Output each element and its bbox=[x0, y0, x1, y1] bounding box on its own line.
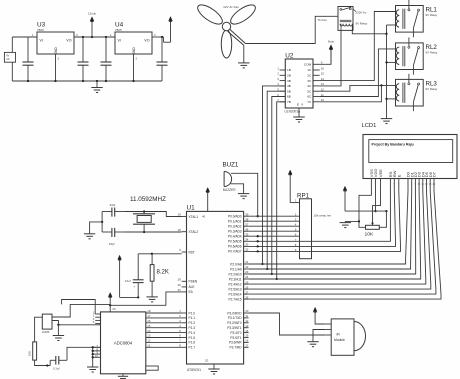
svg-text:15: 15 bbox=[147, 324, 151, 328]
ground R1 bbox=[146, 297, 157, 302]
wire U2 6B input from P2.2 bbox=[271, 97, 286, 276]
svg-text:ULN2003A: ULN2003A bbox=[285, 110, 301, 114]
svg-text:10k array res: 10k array res bbox=[314, 214, 332, 218]
svg-text:P3.2/INT0: P3.2/INT0 bbox=[227, 321, 242, 325]
svg-text:P2.3/A11: P2.3/A11 bbox=[229, 277, 242, 281]
svg-text:BUZ1: BUZ1 bbox=[223, 162, 239, 169]
svg-text:16: 16 bbox=[321, 66, 325, 70]
wire P3.0 RXD to IR module bbox=[249, 313, 326, 335]
relay RL1 9V relay bbox=[396, 0, 438, 37]
wire U3 output rail bbox=[74, 36, 115, 38]
wire fan terminal to ground bbox=[243, 45, 245, 63]
wire RL2 coil+ from U2 6C bbox=[320, 49, 396, 97]
wire IR module ground leg bbox=[313, 330, 325, 342]
svg-text:P3.0/RXD: P3.0/RXD bbox=[227, 311, 242, 315]
wire ADC ground bus bbox=[92, 347, 94, 367]
svg-text:LM35: LM35 bbox=[42, 330, 50, 334]
node crystal frequency label bbox=[130, 196, 166, 203]
svg-text:P0.4/AD4: P0.4/AD4 bbox=[228, 235, 242, 239]
svg-text:GND: GND bbox=[54, 47, 58, 55]
svg-text:18: 18 bbox=[147, 309, 151, 313]
svg-text:E: E bbox=[396, 174, 401, 177]
svg-text:14: 14 bbox=[147, 329, 151, 333]
resistor pack RP1 10k array bbox=[290, 193, 331, 259]
svg-text:LCD1: LCD1 bbox=[362, 123, 377, 129]
buzzer BUZ1 bbox=[223, 162, 239, 192]
svg-text:13: 13 bbox=[147, 334, 151, 338]
wire RL3 coil+ from U2 5C bbox=[320, 85, 396, 91]
ground relay bus bbox=[381, 119, 392, 124]
svg-text:12: 12 bbox=[245, 319, 249, 323]
svg-text:E: E bbox=[297, 103, 299, 107]
svg-text:12V dc Fan: 12V dc Fan bbox=[223, 5, 239, 9]
svg-text:10: 10 bbox=[245, 309, 249, 313]
driver U2 ULN2003A bbox=[277, 53, 324, 114]
wire U1 GND pin 20 bbox=[213, 364, 215, 369]
svg-text:230V Ac: 230V Ac bbox=[356, 11, 367, 15]
svg-text:40: 40 bbox=[202, 215, 206, 219]
svg-text:VEE: VEE bbox=[378, 169, 383, 177]
wire reset supply leg bbox=[120, 296, 140, 298]
svg-text:35: 35 bbox=[245, 232, 249, 236]
svg-text:24: 24 bbox=[245, 275, 249, 279]
wire crystal left rail bbox=[101, 212, 103, 233]
svg-text:4B: 4B bbox=[287, 84, 291, 88]
ground crystal bbox=[84, 222, 102, 239]
svg-text:GND: GND bbox=[132, 47, 136, 55]
svg-text:P1.1: P1.1 bbox=[189, 316, 196, 320]
svg-text:15: 15 bbox=[321, 72, 325, 76]
resistor R2 ADC clock bbox=[146, 366, 158, 370]
svg-text:XTAL1: XTAL1 bbox=[189, 215, 199, 219]
svg-text:XTAL2: XTAL2 bbox=[189, 230, 199, 234]
capacitor C6 33pf bbox=[102, 228, 125, 246]
svg-text:RP1: RP1 bbox=[297, 193, 310, 200]
svg-text:11: 11 bbox=[321, 93, 324, 97]
wire BUZ1 to ground bbox=[231, 184, 244, 194]
wire relay ground bus bbox=[385, 25, 387, 119]
wire P0 bus to RP1 bbox=[249, 216, 300, 252]
svg-text:9V Relay: 9V Relay bbox=[426, 50, 438, 54]
wire LCD VDD to +5V bbox=[374, 186, 376, 213]
wire ADC control steps bbox=[62, 300, 96, 315]
svg-text:U2: U2 bbox=[285, 53, 294, 60]
svg-text:2B: 2B bbox=[287, 74, 291, 78]
svg-text:VO: VO bbox=[144, 39, 149, 43]
svg-text:P1.2: P1.2 bbox=[189, 321, 196, 325]
svg-text:ADC0804: ADC0804 bbox=[114, 341, 133, 346]
wire U2 5B input from P2.1 bbox=[266, 91, 285, 270]
svg-text:P2.7/A15: P2.7/A15 bbox=[228, 297, 241, 301]
regulator U4 7805 bbox=[110, 22, 156, 61]
svg-text:P1.3: P1.3 bbox=[189, 326, 196, 330]
capacitor C2 bbox=[78, 37, 89, 81]
wire P0.5 to LCD RS bbox=[300, 186, 391, 242]
wire P2.1 to LCD D1 bbox=[249, 186, 412, 270]
svg-text:29: 29 bbox=[178, 278, 182, 282]
svg-text:P0.5/AD5: P0.5/AD5 bbox=[228, 240, 242, 244]
svg-text:10K: 10K bbox=[365, 231, 374, 237]
svg-text:ALE: ALE bbox=[189, 285, 195, 289]
svg-text:P3.7/RD: P3.7/RD bbox=[230, 346, 243, 350]
wire P2.6 to LCD D6 bbox=[249, 186, 436, 295]
svg-text:34: 34 bbox=[245, 238, 249, 242]
svg-text:9vdc: 9vdc bbox=[328, 40, 335, 44]
resistor R3 bbox=[28, 342, 37, 360]
svg-text:P0.3/AD3: P0.3/AD3 bbox=[228, 230, 242, 234]
svg-text:26: 26 bbox=[245, 285, 249, 289]
svg-text:P2.0/A8: P2.0/A8 bbox=[230, 262, 242, 266]
ground LM35 bbox=[53, 336, 64, 341]
module IR receiver bbox=[325, 319, 365, 355]
wire pot right terminal bbox=[379, 211, 386, 227]
svg-text:19: 19 bbox=[178, 213, 182, 217]
connector J1 9V AC input bbox=[4, 52, 15, 62]
wire RL4 coil to U2 4C bbox=[320, 30, 341, 86]
svg-text:P3.5/T1: P3.5/T1 bbox=[230, 336, 241, 340]
svg-text:Module: Module bbox=[334, 338, 345, 342]
svg-text:37: 37 bbox=[245, 222, 249, 226]
svg-text:P0.6/AD6: P0.6/AD6 bbox=[228, 245, 242, 249]
svg-text:VI: VI bbox=[118, 39, 121, 43]
wire ADC GND pin bbox=[122, 374, 124, 377]
svg-text:18: 18 bbox=[178, 228, 182, 232]
ground BUZ1 bbox=[238, 194, 249, 199]
sensor LM35 bbox=[42, 314, 52, 334]
svg-text:23: 23 bbox=[245, 270, 249, 274]
svg-text:D7: D7 bbox=[432, 171, 437, 177]
svg-text:VO: VO bbox=[66, 39, 71, 43]
node +5V arrow ADC VCC bbox=[108, 293, 116, 312]
capacitor C4 bbox=[157, 37, 168, 81]
svg-text:14: 14 bbox=[321, 77, 325, 81]
svg-text:U1: U1 bbox=[187, 205, 196, 212]
wire C8 to ADC bbox=[67, 346, 101, 360]
wire P0.6 to LCD RW bbox=[300, 186, 396, 247]
svg-text:28: 28 bbox=[245, 295, 249, 299]
wire U2 7C to RL3 coil line bbox=[320, 84, 383, 102]
node To Fan label bbox=[318, 18, 328, 22]
svg-text:9V Relay: 9V Relay bbox=[356, 22, 368, 26]
svg-text:7B: 7B bbox=[287, 100, 291, 104]
svg-text:33pf: 33pf bbox=[109, 242, 115, 246]
wire EA to +5V node bbox=[109, 292, 182, 307]
svg-text:P1.0: P1.0 bbox=[189, 311, 196, 315]
wire P2.0 to LCD D0 bbox=[249, 186, 408, 265]
relay RL2 9V relay bbox=[396, 37, 438, 74]
wire LM35 to resistor R3 bbox=[35, 317, 43, 342]
regulator U3 7805 bbox=[32, 22, 78, 61]
node RL4 9V Relay label bbox=[356, 22, 368, 26]
capacitor C5 33pf bbox=[102, 203, 125, 217]
svg-text:P2.4/A12: P2.4/A12 bbox=[228, 282, 241, 286]
ground ADC bottom bbox=[118, 376, 128, 379]
crystal X1 bbox=[133, 212, 155, 233]
svg-text:AT89C51: AT89C51 bbox=[187, 368, 201, 372]
svg-text:P1.7: P1.7 bbox=[189, 346, 196, 350]
svg-text:1B: 1B bbox=[287, 68, 291, 72]
wire RST net bbox=[138, 253, 181, 255]
svg-text:13: 13 bbox=[245, 324, 249, 328]
svg-text:P2.1/A9: P2.1/A9 bbox=[230, 267, 242, 271]
svg-text:12vdc: 12vdc bbox=[88, 11, 97, 15]
svg-text:17: 17 bbox=[245, 344, 249, 348]
svg-text:P0.0/AD0: P0.0/AD0 bbox=[228, 215, 242, 219]
relay RL4 fan relay bbox=[338, 7, 353, 31]
wire XTAL2 net bbox=[125, 231, 182, 233]
wire BUZ1 to P0.0 bbox=[231, 173, 259, 217]
svg-text:10K: 10K bbox=[28, 351, 32, 356]
wire P2.7 to LCD D7 bbox=[249, 186, 441, 300]
wire R3 bottom node bbox=[35, 360, 51, 367]
wire U2 4B input from P2.0 bbox=[261, 86, 285, 265]
wire RL1 coil+ from U2 3C bbox=[320, 12, 396, 81]
node +5V supply arrow bbox=[169, 17, 173, 43]
svg-text:33pf: 33pf bbox=[110, 203, 116, 207]
wire P2.2 to LCD D2 bbox=[249, 186, 416, 275]
node +12V supply arrow bbox=[88, 11, 97, 37]
wire fan terminal to relay bbox=[228, 16, 338, 45]
svg-text:12: 12 bbox=[321, 88, 325, 92]
ground fan bbox=[238, 63, 249, 68]
wire RP1 pin1 to +5V bbox=[289, 176, 291, 203]
svg-text:8.2K: 8.2K bbox=[157, 270, 169, 276]
wire XTAL1 net bbox=[125, 210, 182, 216]
svg-text:16: 16 bbox=[147, 319, 151, 323]
wire LM35 VCC leg bbox=[52, 304, 110, 317]
svg-text:P2.6/A14: P2.6/A14 bbox=[228, 292, 241, 296]
svg-text:BUZZER: BUZZER bbox=[223, 188, 236, 192]
svg-text:P0.1/AD1: P0.1/AD1 bbox=[228, 220, 242, 224]
svg-text:20: 20 bbox=[205, 359, 209, 363]
ground IR module bbox=[307, 342, 318, 347]
wire RL3 coil- to ground bus bbox=[387, 98, 396, 100]
mcu U1 AT89C51 bbox=[178, 205, 249, 372]
wire P2.5 to LCD D5 bbox=[249, 186, 431, 290]
svg-text:6B: 6B bbox=[287, 95, 291, 99]
svg-text:P0.7/AD7: P0.7/AD7 bbox=[228, 250, 242, 254]
svg-text:11: 11 bbox=[245, 314, 248, 318]
wire RL4 coil to ground bus bbox=[352, 30, 386, 33]
svg-text:20: 20 bbox=[112, 307, 116, 311]
svg-text:P3.6/WR: P3.6/WR bbox=[229, 341, 242, 345]
svg-text:11: 11 bbox=[147, 344, 150, 348]
ground pot bbox=[340, 221, 351, 227]
svg-text:27: 27 bbox=[245, 290, 249, 294]
svg-text:PSEN: PSEN bbox=[189, 280, 198, 284]
svg-text:10uf: 10uf bbox=[125, 279, 131, 283]
svg-text:P0.2/AD2: P0.2/AD2 bbox=[228, 225, 242, 229]
wire +5V rail to pot bbox=[345, 210, 388, 212]
wire IR module VCC bbox=[315, 312, 325, 324]
svg-text:3B: 3B bbox=[287, 79, 291, 83]
node +5V arrow reset bbox=[118, 255, 122, 297]
svg-text:P1.6: P1.6 bbox=[189, 341, 196, 345]
svg-text:P1.5: P1.5 bbox=[189, 336, 196, 340]
ground PSU bbox=[91, 81, 102, 93]
resistor R1 8.2K bbox=[150, 254, 169, 297]
svg-text:P2.5/A13: P2.5/A13 bbox=[228, 287, 241, 291]
node LCD1 label bbox=[362, 123, 377, 129]
capacitor C3 bbox=[101, 37, 112, 81]
motor FAN1 12V dc fan bbox=[195, 1, 258, 58]
svg-text:17: 17 bbox=[147, 314, 151, 318]
svg-text:36: 36 bbox=[245, 227, 249, 231]
wire LM35 ground leg bbox=[57, 325, 59, 336]
svg-text:Project By Bandaru Raju: Project By Bandaru Raju bbox=[372, 143, 414, 147]
svg-text:13: 13 bbox=[321, 82, 325, 86]
svg-text:AC: AC bbox=[6, 58, 10, 61]
wire RL1 coil- to ground bus bbox=[387, 24, 396, 26]
node 230V Ac label bbox=[353, 9, 367, 15]
svg-text:22: 22 bbox=[245, 265, 249, 269]
wire U2 emitter pin to ground bbox=[298, 108, 300, 117]
wire P0.7 to LCD E bbox=[300, 186, 401, 252]
wire U4 output to +5V arrow bbox=[152, 36, 171, 42]
capacitor C7 10uf bbox=[125, 254, 144, 298]
svg-text:14: 14 bbox=[245, 329, 249, 333]
wire LM35 output to ADC VIN+ bbox=[52, 321, 101, 326]
adc U5 ADC0804 bbox=[93, 311, 146, 374]
svg-text:P1.4: P1.4 bbox=[189, 331, 196, 335]
wire pot left terminal bbox=[345, 220, 365, 227]
svg-text:P3.3/INT1: P3.3/INT1 bbox=[227, 326, 242, 330]
potentiometer RV1 10K bbox=[365, 225, 380, 237]
svg-text:P3.1/TXD: P3.1/TXD bbox=[228, 316, 243, 320]
svg-text:11.0592MHZ: 11.0592MHZ bbox=[130, 196, 166, 203]
svg-text:25: 25 bbox=[245, 280, 249, 284]
lcd LCD1 16x2 display bbox=[363, 135, 457, 186]
svg-text:15: 15 bbox=[245, 334, 249, 338]
relay RL3 9V relay bbox=[396, 74, 438, 111]
wire P2.4 to LCD D4 bbox=[249, 186, 426, 285]
ground U1 bbox=[208, 369, 219, 374]
wire RL2 coil- to ground bus bbox=[387, 61, 396, 63]
node +5V arrow IR bbox=[313, 307, 317, 312]
wire LCD VEE to pot wiper bbox=[373, 186, 381, 226]
capacitor C8 bbox=[50, 356, 67, 370]
ground U2 bbox=[293, 117, 304, 122]
svg-text:38: 38 bbox=[245, 217, 249, 221]
svg-text:To Fan: To Fan bbox=[318, 18, 328, 22]
svg-text:0.1uf: 0.1uf bbox=[53, 366, 60, 370]
wire 9V input rail bbox=[12, 37, 37, 81]
svg-text:39: 39 bbox=[245, 212, 249, 216]
svg-text:P2.2/A10: P2.2/A10 bbox=[228, 272, 241, 276]
wire U4 ground pin bbox=[133, 54, 135, 81]
svg-text:P3.4/T0: P3.4/T0 bbox=[230, 331, 241, 335]
node +5V arrow RP1 bbox=[288, 170, 292, 176]
svg-text:33: 33 bbox=[245, 243, 249, 247]
wire ADC data bus to P1 bbox=[146, 309, 182, 347]
svg-text:RST: RST bbox=[189, 250, 195, 254]
wire U2 COM to +9V bbox=[320, 49, 331, 64]
svg-text:7805: 7805 bbox=[115, 28, 122, 32]
svg-text:VI: VI bbox=[40, 39, 43, 43]
capacitor C1 bbox=[23, 37, 34, 81]
svg-text:9V Relay: 9V Relay bbox=[426, 87, 438, 91]
node +5V arrow U1 VCC pin 40 bbox=[206, 188, 210, 212]
node +5V arrow pot bbox=[343, 186, 347, 211]
svg-text:COM: COM bbox=[304, 63, 312, 67]
ground ADC bbox=[87, 367, 98, 372]
svg-text:5B: 5B bbox=[287, 89, 291, 93]
wire PSU ground rail bbox=[12, 80, 162, 82]
svg-text:21: 21 bbox=[245, 260, 249, 264]
svg-text:32: 32 bbox=[245, 248, 249, 252]
svg-text:30: 30 bbox=[178, 283, 182, 287]
wire U2 7B input from P2.3 bbox=[276, 102, 286, 280]
svg-text:7809: 7809 bbox=[37, 28, 44, 32]
wire U3 ground pin bbox=[55, 54, 57, 81]
wire P2.3 to LCD D3 bbox=[249, 186, 421, 280]
svg-text:10: 10 bbox=[95, 354, 99, 358]
svg-text:16: 16 bbox=[245, 339, 249, 343]
node +9V arrow at U2 COM bbox=[328, 40, 335, 65]
svg-text:10: 10 bbox=[321, 98, 325, 102]
svg-text:12: 12 bbox=[147, 339, 151, 343]
node pot wiper arrowhead bbox=[371, 223, 374, 226]
svg-text:9V Relay: 9V Relay bbox=[426, 13, 438, 17]
svg-text:+: + bbox=[134, 285, 136, 289]
wire LCD VSS to ground bbox=[359, 186, 371, 222]
